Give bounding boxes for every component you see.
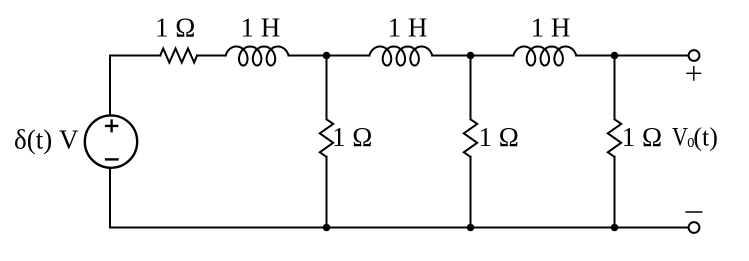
- inductor L1 1 H coil: [226, 46, 289, 65]
- wire shunt resistor R4 bottom to bottom rail: [614, 157, 616, 228]
- wire bottom rail: [110, 227, 688, 229]
- output terminal bottom open circle: [689, 222, 700, 233]
- resistor R4 1 ohm shunt zigzag: [608, 119, 621, 157]
- svg-text:1 H: 1 H: [241, 13, 281, 43]
- svg-text:1 H: 1 H: [388, 13, 428, 43]
- wire source top to top rail corner: [109, 56, 111, 115]
- wire L2 to node B: [432, 55, 513, 57]
- svg-text:1 Ω: 1 Ω: [479, 122, 519, 152]
- svg-text:1 Ω: 1 Ω: [622, 122, 662, 152]
- wire node to shunt resistor R2 top: [326, 56, 328, 120]
- node A junction dot top: [323, 52, 331, 60]
- voltage source minus sign: [105, 158, 119, 160]
- wire R1 to L1: [197, 55, 226, 57]
- wire top rail corner to R1: [110, 55, 160, 57]
- node C junction dot top: [611, 52, 619, 60]
- resistor R3 1 ohm shunt zigzag: [464, 119, 477, 157]
- svg-text:1 Ω: 1 Ω: [332, 122, 372, 152]
- wire source bottom to bottom rail: [109, 169, 111, 228]
- output polarity plus marker: [686, 66, 701, 81]
- svg-text:V: V: [672, 122, 688, 151]
- wire shunt resistor R3 bottom to bottom rail: [470, 157, 472, 228]
- svg-text:(t): (t): [693, 122, 718, 151]
- wire L3 through node C to plus terminal: [576, 55, 687, 57]
- node B junction dot top: [467, 52, 475, 60]
- wire L1 to node A: [289, 55, 370, 57]
- resistor R2 1 ohm shunt zigzag: [320, 119, 333, 157]
- voltage source plus sign: [105, 119, 118, 132]
- voltage source V1 circle: [85, 115, 137, 167]
- output terminal top open circle: [689, 50, 700, 61]
- inductor L3 1 H coil: [513, 46, 576, 65]
- inductor L2 1 H coil: [369, 46, 432, 65]
- wire node to shunt resistor R4 top: [614, 56, 616, 120]
- node A junction dot bottom: [323, 224, 331, 232]
- output polarity minus marker: [685, 211, 702, 213]
- resistor R1 1 ohm series zigzag: [160, 49, 197, 63]
- node B junction dot bottom: [467, 224, 475, 232]
- svg-text:1 Ω: 1 Ω: [155, 13, 195, 43]
- wire node to shunt resistor R3 top: [470, 56, 472, 120]
- svg-text:δ(t) V: δ(t) V: [14, 124, 79, 154]
- node C junction dot bottom: [611, 224, 619, 232]
- svg-text:1 H: 1 H: [531, 13, 571, 43]
- wire shunt resistor R2 bottom to bottom rail: [326, 157, 328, 228]
